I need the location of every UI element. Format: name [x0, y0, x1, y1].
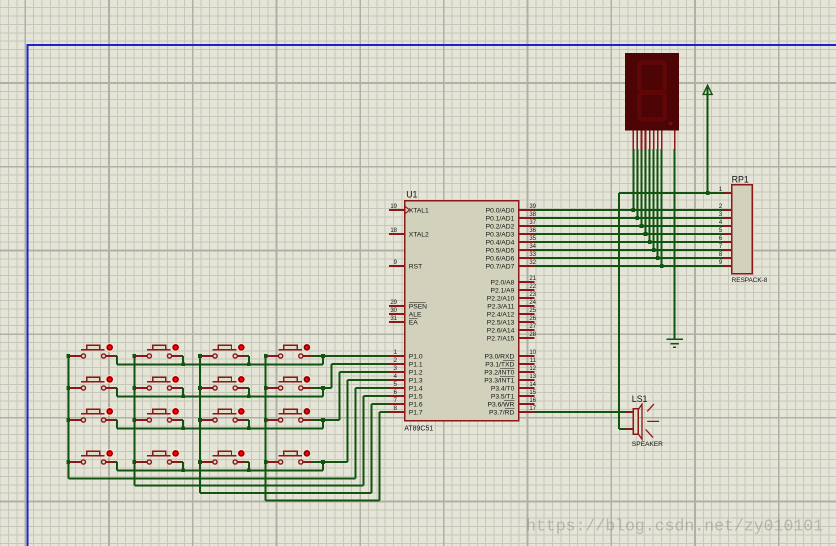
pushbutton row1 col1 [68, 343, 114, 358]
svg-text:24: 24 [529, 300, 536, 306]
pushbutton row4 col1 [68, 449, 114, 464]
pushbutton row3 col2 [134, 407, 180, 422]
resistor pack RP1 RESPACK-8 [719, 174, 768, 284]
wire: display common pin down to ground [674, 149, 676, 340]
svg-text:26: 26 [529, 316, 536, 322]
svg-text:P1.2: P1.2 [409, 370, 423, 377]
svg-text:ALE: ALE [409, 312, 422, 319]
svg-text:SPEAKER: SPEAKER [632, 441, 663, 448]
svg-text:P0.4/AD4: P0.4/AD4 [486, 240, 515, 247]
svg-text:P0.1/AD1: P0.1/AD1 [486, 216, 515, 223]
svg-text:16: 16 [529, 398, 536, 404]
svg-text:AT89C51: AT89C51 [404, 425, 433, 432]
wire: keypad row 2 net to U1 pin 2 [114, 364, 388, 398]
svg-text:P1.0: P1.0 [409, 354, 423, 361]
ground symbol [666, 339, 683, 347]
svg-text:28: 28 [529, 332, 536, 338]
svg-text:P3.1/TXD: P3.1/TXD [485, 362, 514, 369]
wire: keypad column 1 net to U1 pin 5 [67, 354, 389, 478]
power VCC arrow [703, 85, 712, 193]
svg-text:P0.5/AD5: P0.5/AD5 [486, 248, 515, 255]
wire: keypad column 3 net to U1 pin 7 [198, 354, 389, 493]
pushbutton row3 col4 [266, 407, 312, 422]
svg-text:P0.2/AD2: P0.2/AD2 [486, 224, 515, 231]
svg-text:23: 23 [529, 292, 536, 298]
svg-text:15: 15 [529, 390, 536, 396]
svg-text:RESPACK-8: RESPACK-8 [732, 277, 768, 284]
pushbutton row4 col3 [200, 449, 246, 464]
svg-text:RP1: RP1 [732, 174, 749, 184]
svg-text:XTAL2: XTAL2 [409, 232, 429, 239]
U1 left pins with numbers [389, 204, 429, 416]
svg-text:P2.3/A11: P2.3/A11 [487, 304, 514, 311]
svg-text:P2.5/A13: P2.5/A13 [487, 320, 515, 327]
svg-text:P1.4: P1.4 [409, 386, 423, 393]
pushbutton row3 col3 [200, 407, 246, 422]
svg-text:25: 25 [529, 308, 536, 314]
svg-text:P3.5/T1: P3.5/T1 [491, 394, 515, 401]
microcontroller U1 AT89C51 [404, 190, 518, 433]
svg-text:XTAL1: XTAL1 [409, 208, 429, 215]
wire: keypad row 4 net to U1 pin 4 [114, 380, 388, 472]
svg-text:P1.5: P1.5 [409, 394, 423, 401]
svg-text:P3.7/RD: P3.7/RD [489, 410, 514, 417]
7-segment display [625, 53, 679, 149]
svg-text:P2.4/A12: P2.4/A12 [487, 312, 515, 319]
wire: VCC rail to RP1 pin 1 and to speaker [619, 191, 723, 429]
svg-text:P3.0/RXD: P3.0/RXD [485, 354, 515, 361]
svg-text:22: 22 [529, 284, 536, 290]
wire: keypad row 3 net to U1 pin 3 [114, 372, 388, 430]
wire: keypad row 1 net to U1 pin 1 [114, 354, 388, 366]
svg-text:11: 11 [530, 358, 537, 364]
pushbutton row1 col3 [200, 343, 246, 358]
pushbutton row2 col3 [200, 375, 246, 390]
svg-text:P2.7/A15: P2.7/A15 [487, 336, 515, 343]
svg-text:27: 27 [529, 324, 536, 330]
svg-text:P0.6/AD6: P0.6/AD6 [486, 256, 515, 263]
svg-text:18: 18 [390, 228, 397, 234]
svg-text:P0.7/AD7: P0.7/AD7 [486, 264, 515, 271]
svg-text:RST: RST [409, 264, 422, 271]
wire: U1 pin17 P3.7/RD to speaker + terminal [534, 411, 625, 413]
svg-text:P2.1/A9: P2.1/A9 [491, 288, 515, 295]
pushbutton row2 col1 [68, 375, 114, 390]
wires: display segment pins down to P0 rows (junctions) [632, 149, 664, 268]
svg-text:U1: U1 [406, 190, 417, 200]
svg-text:LS1: LS1 [632, 394, 648, 404]
svg-text:P1.6: P1.6 [409, 402, 423, 409]
wire: keypad column 4 net to U1 pin 8 [264, 354, 389, 500]
svg-text:19: 19 [390, 204, 397, 210]
pushbutton row4 col4 [266, 449, 312, 464]
svg-text:10: 10 [529, 350, 536, 356]
svg-text:P1.7: P1.7 [409, 410, 423, 417]
svg-text:P0.0/AD0: P0.0/AD0 [486, 208, 515, 215]
svg-text:P2.0/A8: P2.0/A8 [491, 280, 515, 287]
pushbutton row1 col2 [134, 343, 180, 358]
svg-text:P1.3: P1.3 [409, 378, 423, 385]
pushbutton row2 col4 [266, 375, 312, 390]
pushbutton row3 col1 [68, 407, 114, 422]
U1 right pins with numbers [484, 204, 536, 416]
svg-text:P2.6/A14: P2.6/A14 [487, 328, 515, 335]
svg-text:P3.2/INT0: P3.2/INT0 [484, 370, 514, 377]
svg-text:21: 21 [529, 276, 536, 282]
pushbutton row2 col2 [134, 375, 180, 390]
wire: keypad column 2 net to U1 pin 6 [133, 354, 389, 486]
svg-text:EA: EA [409, 320, 418, 327]
pushbutton row4 col2 [134, 449, 180, 464]
svg-text:P3.3/INT1: P3.3/INT1 [484, 378, 514, 385]
svg-text:29: 29 [390, 300, 397, 306]
svg-text:PSEN: PSEN [409, 304, 427, 311]
svg-text:https://blog.csdn.net/zy010101: https://blog.csdn.net/zy010101 [526, 517, 823, 536]
svg-text:31: 31 [390, 316, 397, 322]
svg-text:14: 14 [529, 382, 536, 388]
svg-text:P2.2/A10: P2.2/A10 [487, 296, 515, 303]
svg-text:12: 12 [529, 366, 536, 372]
svg-text:13: 13 [529, 374, 536, 380]
svg-text:P0.3/AD3: P0.3/AD3 [486, 232, 515, 239]
svg-text:P3.4/T0: P3.4/T0 [491, 386, 515, 393]
speaker LS1 [625, 394, 663, 448]
wires: P0.0-P0.7 rows from U1 to RP1 pins 2-9 [534, 210, 723, 266]
svg-text:30: 30 [390, 308, 397, 314]
svg-text:P1.1: P1.1 [409, 362, 423, 369]
pushbutton row1 col4 [266, 343, 312, 358]
svg-text:P3.6/WR: P3.6/WR [488, 402, 515, 409]
